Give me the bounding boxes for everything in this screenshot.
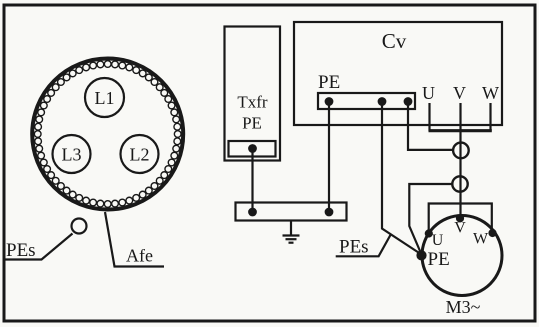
- terminal W of Cv: [482, 83, 499, 131]
- svg-text:Afe: Afe: [126, 246, 153, 266]
- wire V to motor: [459, 143, 461, 219]
- earth busbar: [236, 203, 347, 221]
- wire clamp ring 2 to motor PE: [409, 184, 452, 255]
- screen clamp ring 1: [453, 143, 469, 159]
- svg-text:L3: L3: [62, 145, 82, 165]
- wire Cv PE middle to motor PE: [382, 102, 422, 255]
- conductor L3: [53, 135, 91, 173]
- svg-text:PEs: PEs: [6, 240, 36, 261]
- motor terminal PE: [418, 249, 450, 270]
- terminal U of Cv: [422, 83, 435, 131]
- terminal V of Cv: [453, 83, 466, 143]
- ground: [283, 221, 300, 243]
- label PEs (left): [3, 234, 73, 262]
- wire Cv PE right to clamp ring 1: [408, 102, 453, 150]
- svg-text:Txfr: Txfr: [237, 93, 268, 112]
- conductor L2: [121, 135, 159, 173]
- motor screen bracket: [429, 204, 492, 234]
- wire Txfr PE to earth bar: [251, 149, 253, 213]
- PE terminal bar of Cv: [318, 72, 415, 109]
- svg-text:L2: L2: [130, 145, 150, 165]
- transformer box Txfr: [225, 27, 281, 161]
- motor terminal W: [473, 230, 496, 248]
- cable screen Afe (beaded ring): [32, 59, 183, 210]
- svg-text:M3~: M3~: [446, 297, 481, 317]
- svg-text:V: V: [454, 220, 466, 237]
- screen clamp ring 2: [452, 176, 467, 191]
- svg-text:PEs: PEs: [339, 237, 369, 258]
- wire Cv PE left to earth bar: [328, 102, 330, 213]
- svg-text:PE: PE: [428, 249, 450, 270]
- svg-text:U: U: [432, 232, 444, 249]
- converter box Cv: [294, 22, 502, 125]
- PE terminal bar of Txfr: [229, 141, 276, 157]
- conductor L1: [85, 78, 124, 117]
- svg-text:Cv: Cv: [382, 29, 407, 53]
- svg-text:PE: PE: [318, 72, 340, 93]
- terminal PEs (screen pigtail): [72, 219, 87, 234]
- svg-text:U: U: [422, 83, 435, 103]
- svg-text:W: W: [482, 83, 499, 103]
- motor terminal U: [426, 231, 444, 250]
- motor cable screen bracket (top): [429, 129, 492, 132]
- svg-text:W: W: [473, 231, 489, 248]
- svg-text:V: V: [453, 83, 466, 103]
- label Afe: [105, 212, 164, 267]
- motor terminal V: [454, 215, 466, 236]
- svg-text:L1: L1: [95, 88, 115, 108]
- motor M3~: [422, 216, 502, 318]
- label PEs (right): [336, 234, 391, 258]
- svg-text:PE: PE: [242, 114, 262, 133]
